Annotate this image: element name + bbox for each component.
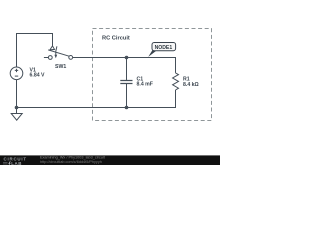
watermark bar <box>0 155 220 165</box>
wire C1 bottom lead <box>126 84 128 108</box>
wire V1 top to corner <box>16 34 18 68</box>
watermark caption text <box>40 156 106 164</box>
label V1 value <box>30 67 46 78</box>
resistor R1 zigzag <box>173 73 179 90</box>
junction dot ground node <box>15 106 19 110</box>
ground symbol <box>11 114 22 121</box>
NODE1 tag tail <box>148 50 158 57</box>
switch SW1 lever <box>48 50 69 56</box>
svg-text:6.84 V: 6.84 V <box>30 73 46 79</box>
node A junction dot (C1 top) <box>125 56 129 60</box>
NODE1 tag box <box>152 43 176 51</box>
switch SW1 actuator arrow <box>56 46 57 55</box>
svg-text:LAB: LAB <box>11 161 22 165</box>
label C1 value <box>137 76 153 87</box>
capacitor C1 plates <box>120 81 132 84</box>
watermark CircuitLab logo <box>3 157 27 166</box>
svg-text:8.4 kΩ: 8.4 kΩ <box>183 82 199 88</box>
switch SW1 left terminal <box>48 56 52 60</box>
wire down to switch SW1 <box>52 33 54 46</box>
label SW1 <box>55 64 66 70</box>
svg-text:NODE1: NODE1 <box>155 45 173 51</box>
svg-text:Examining_Wx / Phy1003_lab3_ci: Examining_Wx / Phy1003_lab3_circuit <box>40 156 106 160</box>
wire R1 top lead <box>175 57 177 73</box>
switch SW1 left stub wire <box>44 57 48 59</box>
switch SW1 actuator triangle <box>50 46 55 50</box>
wire top horizontal <box>16 33 53 35</box>
dashed subcircuit box "RC Circuit" <box>93 29 212 121</box>
switch SW1 right terminal <box>69 56 73 60</box>
junction dot C1 bottom <box>125 106 129 110</box>
svg-text:http:/​/circuitlab.com/c/6dd4t: http:/​/circuitlab.com/c/6dd4t5/Phyyyh <box>40 160 102 164</box>
wire V1 bottom lead <box>16 80 18 108</box>
svg-text:8.4 mF: 8.4 mF <box>137 82 153 88</box>
svg-text:RC Circuit: RC Circuit <box>102 35 130 41</box>
label R1 value <box>183 77 199 89</box>
wire R1 bottom lead <box>175 90 177 108</box>
wire bottom return <box>16 107 176 109</box>
ground stub <box>16 108 18 114</box>
NODE1 tag text <box>155 45 173 51</box>
voltage source V1 <box>10 67 23 80</box>
label RC Circuit <box>102 35 130 41</box>
svg-text:SW1: SW1 <box>55 64 66 70</box>
wire C1 top lead <box>126 58 128 81</box>
wire switch to R1 top (node wire) <box>73 57 176 59</box>
V1 plus sign <box>15 69 18 72</box>
V1 minus sign <box>15 75 18 77</box>
